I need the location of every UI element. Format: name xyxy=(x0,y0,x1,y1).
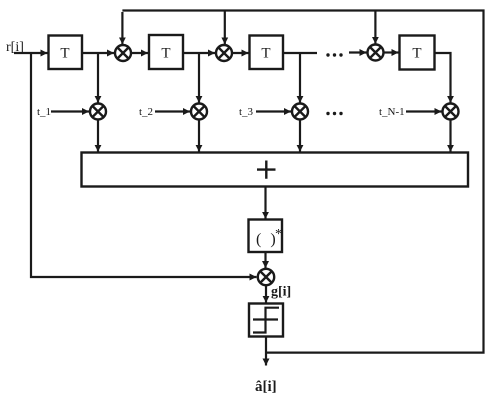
wire T1 to M1 xyxy=(82,52,114,54)
wire tap down to MT2 xyxy=(198,53,200,103)
wire t_3 to MT3 xyxy=(256,110,291,112)
wire M2 to T3 xyxy=(232,52,249,54)
svg-text:T: T xyxy=(261,46,270,62)
wire T3 out xyxy=(283,52,317,54)
svg-text:g[i]: g[i] xyxy=(271,285,291,300)
multiplier M3 xyxy=(368,45,384,61)
multiplier MT4 xyxy=(443,104,459,120)
plus sign xyxy=(257,161,276,179)
multiplier MT3 xyxy=(292,104,308,120)
svg-text:*: * xyxy=(275,227,282,242)
wire MT3 to summation xyxy=(299,120,301,152)
summation S1 xyxy=(82,153,469,187)
wire M1 to T2 xyxy=(131,52,148,54)
wire output xyxy=(265,337,267,366)
wire tap down to MT1 xyxy=(97,53,99,103)
wire dots to M3 xyxy=(349,51,367,53)
wire input into T1 xyxy=(14,52,48,54)
label a hat [i] xyxy=(255,379,277,395)
delay T1 xyxy=(49,36,83,70)
wire conjugate to M9 xyxy=(264,252,266,268)
multiplier M9 xyxy=(258,269,274,285)
label t_2 xyxy=(139,106,153,118)
svg-text:T: T xyxy=(412,46,421,62)
node r[i] input label xyxy=(6,40,24,55)
wire tap down to MT3 xyxy=(299,53,301,103)
wire T4 out to MT4 xyxy=(435,53,451,103)
svg-text:T: T xyxy=(60,46,69,62)
delay T4 xyxy=(400,36,435,70)
wire T2 to M2 xyxy=(183,52,215,54)
wire M3 to T4 xyxy=(384,51,399,53)
wire feedback into M1 xyxy=(121,12,123,44)
svg-text:t_1: t_1 xyxy=(37,106,51,118)
slicer Q1 xyxy=(249,304,283,337)
wire r[i] tap down to M9 xyxy=(31,53,257,277)
wire t_N-1 to MT4 xyxy=(406,110,442,112)
wire MT1 to summation xyxy=(97,120,99,152)
conjugate U1 ( )* xyxy=(249,220,283,253)
wire summation to conjugate xyxy=(264,187,266,219)
svg-text:t_3: t_3 xyxy=(239,106,254,118)
svg-text:t_N-1: t_N-1 xyxy=(379,106,405,118)
ellipsis top row xyxy=(326,53,342,56)
label g[i] xyxy=(271,285,291,300)
ellipsis tap row xyxy=(326,112,342,115)
multiplier M1 xyxy=(115,45,131,61)
wire t_2 to MT2 xyxy=(155,110,190,112)
wire t_1 to MT1 xyxy=(51,110,89,112)
wire feedback into M2 xyxy=(224,11,226,45)
wire MT4 to summation xyxy=(449,120,451,152)
label t_1 xyxy=(37,106,51,118)
svg-text:â[i]: â[i] xyxy=(255,379,277,395)
wire feedback bottom and right and top xyxy=(122,11,483,353)
wire M9 to slicer xyxy=(265,285,267,303)
multiplier MT2 xyxy=(191,104,207,120)
multiplier M2 xyxy=(216,45,232,61)
wire feedback into M3 xyxy=(374,11,376,44)
delay T2 xyxy=(149,35,183,69)
label t_3 xyxy=(239,106,254,118)
multiplier MT1 xyxy=(90,104,106,120)
svg-text:t_2: t_2 xyxy=(139,106,153,118)
svg-text:T: T xyxy=(161,46,170,62)
wire MT2 to summation xyxy=(198,120,200,152)
delay T3 xyxy=(250,36,284,70)
label t_N-1 xyxy=(379,106,405,118)
